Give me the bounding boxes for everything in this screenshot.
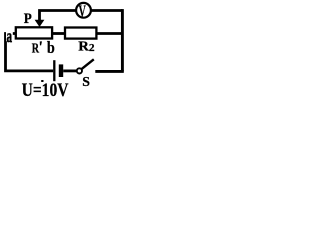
svg-text:P: P [24, 10, 32, 27]
slider arrowhead of P onto rheostat [35, 20, 45, 27]
svg-text:S: S [82, 74, 90, 89]
wire: slider stem up and top wire to voltmeter [40, 11, 77, 22]
svg-text:a: a [7, 27, 13, 46]
svg-text:2: 2 [89, 42, 95, 54]
label a (white halo) [6, 31, 13, 41]
wire: bottom-right to switch contact [95, 70, 124, 73]
resistor R2 box [65, 28, 96, 39]
wire: voltmeter to top-right corner [91, 9, 122, 12]
svg-text:U=10V: U=10V [22, 80, 69, 99]
svg-text:V: V [79, 2, 86, 20]
svg-text:R: R [32, 40, 40, 56]
wire: R2 to right vertical [96, 32, 122, 35]
battery long thin plate (+) [53, 60, 55, 81]
svg-text:b: b [47, 39, 55, 57]
switch pivot circle [77, 68, 82, 73]
battery short thick plate (-) [59, 64, 63, 77]
voltmeter circle U1 [76, 3, 91, 18]
wire: left vertical with stub to node a and bottom to battery [6, 34, 54, 71]
wire: battery to switch pivot [63, 70, 76, 73]
switch lever [82, 59, 94, 69]
serif tick above digit 1 [41, 80, 43, 82]
rheostat R' box [16, 27, 52, 38]
wire: right vertical [121, 9, 124, 71]
wire: rheostat b to R2 [52, 32, 65, 35]
